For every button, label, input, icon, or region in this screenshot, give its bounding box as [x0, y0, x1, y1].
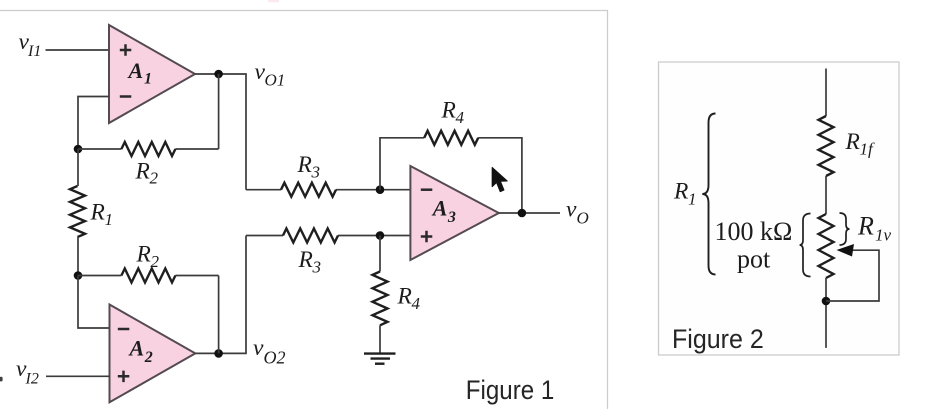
node R1v label	[857, 212, 892, 245]
node A1 output junction	[214, 70, 223, 79]
node vO label	[566, 197, 589, 228]
wire R4 to ground	[379, 325, 381, 352]
wire junction to A2 - input	[78, 276, 110, 329]
svg-text:3: 3	[312, 258, 322, 277]
brace R1v right	[840, 213, 850, 245]
wire pot to bottom	[825, 278, 827, 348]
wire R2 bottom left lead	[78, 275, 121, 277]
svg-text:O: O	[577, 209, 589, 228]
brace R1 (big)	[702, 114, 715, 275]
wire vI1 to A1 + input	[46, 49, 110, 51]
node pot bottom junction	[822, 297, 831, 306]
svg-text:v: v	[253, 335, 264, 361]
wire A2 output	[195, 236, 246, 354]
resistor R2 (top)	[121, 142, 175, 156]
svg-text:1: 1	[144, 71, 152, 88]
wire R1f to pot	[825, 176, 827, 214]
wire top lead	[825, 69, 827, 117]
svg-text:3: 3	[447, 209, 456, 226]
wire left rail into R1	[77, 149, 79, 186]
wire R3 upper right lead	[336, 189, 410, 191]
label R1	[90, 200, 114, 230]
svg-text:4: 4	[456, 108, 465, 127]
mouse cursor arrow	[492, 168, 507, 192]
node left rail lower junction	[74, 271, 83, 280]
wiper arrowhead	[837, 244, 855, 257]
wire R2 top right lead	[175, 148, 218, 150]
node vI1 label	[19, 29, 42, 60]
wire R3 lower left lead	[246, 235, 283, 237]
resistor R1f	[819, 116, 834, 176]
op-amp A2	[110, 305, 196, 403]
svg-text:1v: 1v	[875, 226, 892, 245]
label R4 feedback	[441, 98, 465, 128]
svg-text:3: 3	[311, 163, 321, 182]
figure 1 border frame	[0, 11, 608, 409]
svg-text:v: v	[566, 197, 577, 223]
wire A1 output	[195, 74, 246, 190]
svg-text:O2: O2	[264, 348, 286, 368]
wire A3 + junction down to R4	[379, 236, 381, 272]
label R2 top	[135, 159, 159, 188]
resistor R3 (upper)	[281, 183, 336, 197]
svg-text:I2: I2	[25, 370, 39, 387]
node A2 output junction	[214, 349, 223, 358]
svg-text:1f: 1f	[860, 140, 876, 159]
label R1 composite	[673, 179, 697, 209]
svg-text:pot: pot	[737, 245, 771, 274]
node A3 output junction	[518, 209, 527, 218]
wire R3 upper left lead	[246, 189, 281, 191]
resistor R1	[70, 186, 85, 237]
svg-text:R: R	[857, 212, 874, 241]
partial glyph cut at left edge	[0, 377, 3, 382]
svg-text:R: R	[298, 247, 313, 273]
wire R2 bottom right lead	[175, 275, 218, 277]
wire junction up to R2 bottom row	[218, 276, 220, 354]
label R3 upper	[297, 152, 321, 182]
svg-text:4: 4	[412, 294, 421, 313]
svg-text:A: A	[128, 336, 145, 361]
svg-text:O1: O1	[265, 71, 286, 90]
svg-text:2: 2	[144, 349, 153, 366]
node vI2 label	[16, 356, 39, 388]
svg-text:Figure 1: Figure 1	[466, 376, 554, 405]
svg-text:R: R	[90, 200, 105, 226]
resistor R4 (feedback)	[424, 131, 478, 145]
label R3 lower	[298, 247, 322, 277]
svg-text:A: A	[127, 58, 144, 83]
wire A3 output	[499, 212, 560, 214]
wire R3 lower right lead	[338, 235, 410, 237]
wire R4 feedback left/up leg	[380, 138, 424, 190]
svg-text:R: R	[673, 179, 688, 205]
svg-text:R: R	[136, 242, 151, 268]
node vO1 label	[255, 59, 286, 90]
wire R2 top left lead	[78, 148, 121, 150]
label R2 bottom	[136, 242, 160, 272]
node vO2 label	[253, 335, 286, 368]
resistor R2 (bottom)	[121, 269, 175, 283]
wire vI2 to A2 + input	[46, 375, 110, 377]
op-amp A1	[109, 25, 195, 123]
resistor R3 (lower)	[283, 229, 338, 243]
pink smudge artifact at top edge	[268, 0, 279, 2]
label R1f	[845, 129, 876, 159]
svg-text:I1: I1	[27, 43, 41, 60]
wire junction down to R2 top row	[218, 74, 220, 149]
svg-text:R: R	[397, 284, 412, 310]
figure 2 border frame	[659, 62, 900, 355]
svg-text:R: R	[135, 159, 150, 185]
svg-text:1: 1	[688, 190, 697, 209]
wire A1 - input to left rail	[78, 97, 109, 150]
resistor R1v potentiometer	[819, 214, 834, 278]
svg-text:R: R	[297, 152, 312, 178]
svg-text:2: 2	[150, 169, 159, 188]
brace pot left	[800, 214, 811, 277]
node A3 - input junction	[376, 185, 385, 194]
svg-text:R: R	[845, 129, 860, 155]
label R4 ground leg	[397, 284, 421, 314]
svg-text:100 kΩ: 100 kΩ	[715, 217, 793, 246]
resistor R4 (ground leg)	[373, 272, 388, 326]
wire R4 feedback right/down leg	[478, 138, 522, 213]
svg-text:Figure 2: Figure 2	[672, 325, 764, 354]
svg-text:A: A	[431, 196, 448, 221]
node A3 + input junction	[376, 231, 385, 240]
svg-text:R: R	[441, 98, 456, 124]
op-amp A3	[410, 166, 498, 260]
wire R1 to lower junction	[77, 237, 79, 276]
ground	[364, 354, 396, 364]
svg-text:1: 1	[105, 210, 114, 229]
svg-text:2: 2	[151, 252, 160, 271]
node left rail upper junction	[74, 145, 83, 154]
wire wiper tail	[826, 250, 879, 301]
